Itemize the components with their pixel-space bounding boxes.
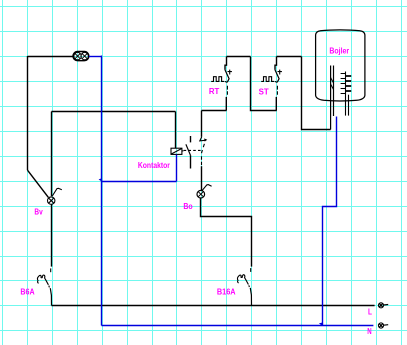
switch Bv blade xyxy=(28,170,49,197)
wire Bv upper vertical xyxy=(51,112,53,197)
wire Bo to B16A xyxy=(201,198,252,267)
wire mid drop xyxy=(251,57,277,111)
svg-text:Bojler: Bojler xyxy=(329,47,349,56)
switch Bo contact xyxy=(197,190,205,198)
contactor coil K (Kontaktor) xyxy=(171,148,183,154)
fuse B16A xyxy=(237,268,251,305)
wire RT top to mid drop xyxy=(227,56,251,58)
switch Bv actuator hook xyxy=(52,188,62,196)
wire control rail xyxy=(52,111,176,113)
wire L rail xyxy=(52,305,375,307)
switch Bo upper wire xyxy=(201,166,203,190)
boiler heating element coil xyxy=(341,72,352,116)
wire N rail (blue) xyxy=(102,325,374,327)
wire N drop vertical (blue) xyxy=(101,56,103,326)
switch Bv contact xyxy=(48,197,55,204)
wire Bv lower vertical xyxy=(51,204,53,266)
wire left vertical xyxy=(27,56,29,170)
boiler tank (Bojler) xyxy=(316,30,365,101)
terminal L xyxy=(378,303,388,308)
svg-text:Bo: Bo xyxy=(183,202,192,211)
svg-text:ST: ST xyxy=(259,87,269,96)
contactor mechanical link (dashed) xyxy=(184,149,201,151)
wire coil bottom (blue) xyxy=(176,155,178,182)
svg-text:Kontaktor: Kontaktor xyxy=(138,161,170,170)
wire lamp to N drop (blue) xyxy=(89,56,102,58)
wire coil return (blue) xyxy=(102,181,177,183)
wire ST top rail to boiler xyxy=(277,56,302,58)
lamp H1 (signal lamp) xyxy=(73,52,89,61)
contactor aux contact / wire to RT link xyxy=(200,111,208,166)
wire boiler return (blue) xyxy=(323,117,337,326)
svg-text:Bv: Bv xyxy=(34,207,43,216)
fuse B6A xyxy=(37,268,51,305)
contactor main contact xyxy=(186,136,191,169)
switch Bo actuator hook xyxy=(202,185,211,191)
wire RT bottom link xyxy=(202,110,227,112)
wire boiler feed xyxy=(302,57,331,130)
wire coil feed xyxy=(175,112,177,149)
svg-text:L: L xyxy=(368,308,372,317)
thermostat ST xyxy=(261,57,282,111)
svg-text:B16A: B16A xyxy=(217,287,236,296)
wire lamp left xyxy=(28,56,73,58)
svg-text:B6A: B6A xyxy=(20,287,34,296)
junction arrow at N rail xyxy=(319,323,323,326)
junction arrow at coil return xyxy=(99,178,102,181)
boiler electrode xyxy=(331,66,334,130)
terminal N xyxy=(378,323,388,328)
svg-text:RT: RT xyxy=(209,87,220,96)
thermostat RT xyxy=(211,57,232,111)
svg-text:N: N xyxy=(367,327,372,336)
